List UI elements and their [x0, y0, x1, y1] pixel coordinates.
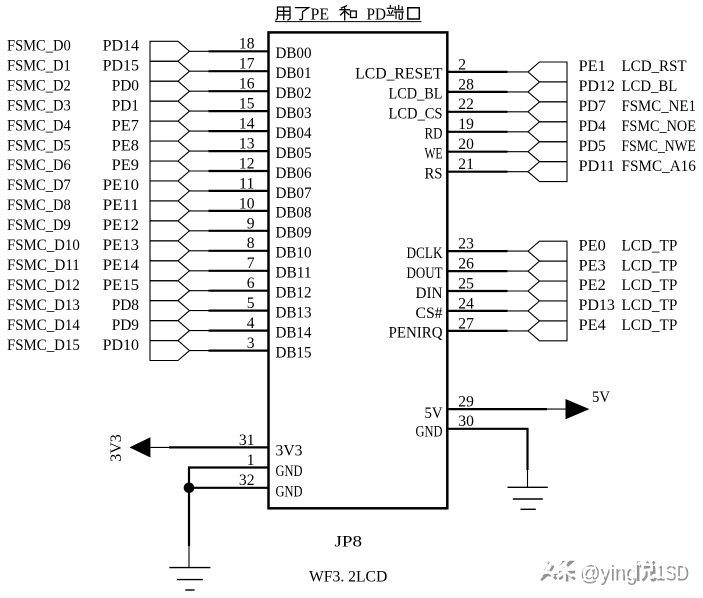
wire junction to ground	[188, 488, 190, 546]
svg-text:FSMC_D8: FSMC_D8	[7, 197, 71, 214]
pin 17 DB01: net FSMC_D1 / PD15	[7, 56, 312, 82]
pin 32 GND wire	[189, 472, 303, 500]
svg-text:FSMC_D14: FSMC_D14	[7, 317, 80, 334]
svg-text:DB04: DB04	[276, 125, 312, 142]
svg-text:PD1: PD1	[112, 97, 139, 114]
svg-text:PE13: PE13	[103, 237, 139, 254]
svg-text:PENIRQ: PENIRQ	[389, 325, 443, 342]
svg-text:31: 31	[239, 432, 255, 449]
svg-text:FSMC_D6: FSMC_D6	[7, 157, 71, 174]
svg-text:FSMC_D15: FSMC_D15	[7, 337, 80, 354]
svg-text:14: 14	[239, 116, 255, 133]
svg-text:LCD_TP: LCD_TP	[622, 317, 678, 334]
pin 23 DCLK: port PE0 / LCD_TP	[407, 236, 678, 262]
svg-text:FSMC_NE1: FSMC_NE1	[622, 98, 696, 115]
svg-text:1: 1	[247, 452, 255, 469]
svg-text:PE0: PE0	[579, 237, 606, 254]
title underline	[275, 21, 422, 23]
svg-text:DB02: DB02	[276, 85, 312, 102]
svg-text:DB10: DB10	[276, 245, 312, 262]
svg-text:GND: GND	[276, 463, 303, 480]
svg-text:22: 22	[458, 96, 474, 113]
pin 28 LCD_BL: port PD12 / LCD_BL	[389, 76, 678, 102]
svg-text:PD12: PD12	[579, 78, 615, 95]
pin 1 GND wire	[189, 452, 303, 488]
svg-text:8: 8	[247, 235, 255, 252]
svg-text:WE: WE	[425, 146, 443, 163]
pin 10 DB08: net FSMC_D8 / PE11	[7, 195, 312, 221]
pin 3 DB15: net FSMC_D15 / PD10	[7, 335, 312, 361]
svg-text:DB09: DB09	[276, 225, 312, 242]
pin 26 DOUT: port PE3 / LCD_TP	[407, 255, 678, 281]
pin 24 CS#: port PD13 / LCD_TP	[416, 295, 678, 321]
svg-text:PE8: PE8	[112, 137, 139, 154]
svg-text:27: 27	[458, 315, 474, 332]
pin 27 PENIRQ: port PE4 / LCD_TP	[389, 315, 678, 341]
svg-text:3V3: 3V3	[108, 434, 125, 462]
svg-text:5: 5	[247, 295, 255, 312]
pin 22 LCD_CS: port PD7 / FSMC_NE1	[389, 96, 696, 122]
title 口	[408, 8, 420, 19]
power symbol 5V arrow	[547, 389, 610, 419]
svg-text:WF3. 2LCD: WF3. 2LCD	[309, 569, 387, 586]
svg-text:28: 28	[458, 76, 474, 93]
svg-text:10: 10	[239, 195, 255, 212]
svg-text:7: 7	[247, 255, 255, 272]
svg-text:9: 9	[247, 215, 255, 232]
svg-text:3: 3	[247, 335, 255, 352]
svg-text:FSMC_D2: FSMC_D2	[7, 77, 71, 94]
svg-text:JP8: JP8	[335, 533, 363, 550]
svg-text:FSMC_D1: FSMC_D1	[7, 57, 71, 74]
svg-text:2: 2	[458, 56, 466, 73]
svg-text:PD15: PD15	[103, 57, 139, 74]
svg-text:PE: PE	[311, 4, 330, 23]
junction dot	[184, 483, 195, 494]
pin 18 DB00: net FSMC_D0 / PD14	[7, 36, 312, 62]
pin 9 DB09: net FSMC_D9 / PE12	[7, 215, 312, 241]
pin 8 DB10: net FSMC_D10 / PE13	[7, 235, 312, 261]
ground symbol (right)	[508, 470, 548, 509]
pin 11 DB07: net FSMC_D7 / PE10	[7, 175, 312, 201]
svg-text:3V3: 3V3	[276, 443, 303, 460]
svg-text:FSMC_D4: FSMC_D4	[7, 117, 71, 134]
svg-text:DB13: DB13	[276, 304, 312, 321]
svg-text:PD0: PD0	[112, 77, 139, 94]
pin 16 DB02: net FSMC_D2 / PD0	[7, 76, 312, 102]
svg-text:30: 30	[458, 413, 474, 430]
svg-text:FSMC_D0: FSMC_D0	[7, 38, 71, 55]
svg-text:19: 19	[458, 116, 474, 133]
svg-text:25: 25	[458, 275, 474, 292]
svg-text:FSMC_A16: FSMC_A16	[622, 158, 696, 175]
pin 2 LCD_RESET: port PE1 / LCD_RST	[355, 56, 687, 82]
svg-text:LCD_RST: LCD_RST	[622, 58, 687, 75]
svg-text:RS: RS	[425, 165, 443, 182]
ground symbol (left)	[169, 546, 210, 590]
svg-text:PE3: PE3	[579, 257, 606, 274]
svg-text:11: 11	[239, 175, 255, 192]
svg-text:6: 6	[247, 275, 255, 292]
svg-text:PD10: PD10	[103, 337, 139, 354]
svg-text:DCLK: DCLK	[407, 245, 443, 262]
svg-text:LCD_BL: LCD_BL	[622, 78, 678, 95]
svg-text:PE4: PE4	[579, 317, 606, 334]
svg-text:PE10: PE10	[103, 177, 139, 194]
svg-text:20: 20	[458, 136, 474, 153]
pin 15 DB03: net FSMC_D3 / PD1	[7, 96, 312, 122]
svg-text:21: 21	[458, 156, 474, 173]
svg-text:DB15: DB15	[276, 344, 312, 361]
svg-text:DOUT: DOUT	[407, 265, 443, 282]
svg-text:5V: 5V	[592, 389, 610, 406]
svg-text:PD14: PD14	[103, 38, 139, 55]
svg-text:PD7: PD7	[579, 98, 606, 115]
svg-text:FSMC_D10: FSMC_D10	[7, 237, 80, 254]
svg-text:PE7: PE7	[112, 117, 139, 134]
svg-text:CS#: CS#	[416, 305, 443, 322]
svg-text:23: 23	[458, 236, 474, 253]
svg-text:13: 13	[239, 135, 255, 152]
svg-text:LCD_TP: LCD_TP	[622, 257, 678, 274]
svg-text:PE15: PE15	[103, 277, 139, 294]
svg-text:DB05: DB05	[276, 145, 312, 162]
svg-text:PE1: PE1	[579, 58, 606, 75]
title 用了PE 和 PD端口	[276, 7, 309, 20]
svg-text:DB00: DB00	[276, 45, 312, 62]
svg-text:LCD_TP: LCD_TP	[622, 277, 678, 294]
pin 19 RD: port PD4 / FSMC_NOE	[425, 116, 696, 142]
svg-text:PD11: PD11	[579, 158, 615, 175]
power symbol 3V3 arrow (left)	[108, 434, 169, 462]
svg-text:DB14: DB14	[276, 324, 312, 341]
svg-text:RD: RD	[425, 126, 443, 143]
svg-text:PD13: PD13	[579, 297, 615, 314]
svg-text:PE11: PE11	[103, 197, 139, 214]
svg-text:LCD_TP: LCD_TP	[622, 297, 678, 314]
svg-text:FSMC_D12: FSMC_D12	[7, 277, 80, 294]
svg-text:LCD_CS: LCD_CS	[389, 106, 443, 123]
pin 14 DB04: net FSMC_D4 / PE7	[7, 116, 312, 142]
svg-text:GND: GND	[276, 483, 303, 500]
svg-text:DB11: DB11	[276, 265, 312, 282]
svg-text:FSMC_D3: FSMC_D3	[7, 97, 71, 114]
pin 4 DB14: net FSMC_D14 / PD9	[7, 315, 312, 341]
svg-text:PD4: PD4	[579, 118, 606, 135]
svg-text:PE2: PE2	[579, 277, 606, 294]
svg-text:1SD: 1SD	[654, 559, 687, 583]
svg-text:FSMC_D11: FSMC_D11	[7, 257, 80, 274]
svg-text:LCD_TP: LCD_TP	[622, 237, 678, 254]
svg-text:FSMC_D13: FSMC_D13	[7, 297, 80, 314]
svg-text:PE9: PE9	[112, 157, 139, 174]
svg-text:24: 24	[458, 295, 474, 312]
pin 12 DB06: net FSMC_D6 / PE9	[7, 155, 312, 181]
svg-text:26: 26	[458, 255, 474, 272]
svg-text:GND: GND	[416, 424, 443, 441]
svg-text:LCD_RESET: LCD_RESET	[355, 66, 443, 83]
svg-text:DB08: DB08	[276, 205, 312, 222]
pin 30 GND wire	[416, 413, 528, 470]
svg-text:DB01: DB01	[276, 65, 312, 82]
svg-text:DB03: DB03	[276, 105, 312, 122]
svg-text:FSMC_NWE: FSMC_NWE	[622, 138, 696, 155]
svg-text:PD8: PD8	[112, 297, 139, 314]
svg-text:DIN: DIN	[416, 285, 443, 302]
pin 7 DB11: net FSMC_D11 / PE14	[7, 255, 312, 281]
watermark 头条 @ying悦1SD	[538, 559, 690, 586]
svg-text:12: 12	[239, 155, 255, 172]
svg-text:5V: 5V	[425, 405, 443, 422]
pin 20 WE: port PD5 / FSMC_NWE	[425, 136, 696, 162]
svg-text:FSMC_D7: FSMC_D7	[7, 177, 71, 194]
svg-text:15: 15	[239, 96, 255, 113]
pin 31 3V3	[169, 432, 303, 460]
svg-text:DB06: DB06	[276, 165, 312, 182]
svg-text:DB12: DB12	[276, 285, 312, 302]
svg-text:16: 16	[239, 76, 255, 93]
svg-text:PD9: PD9	[112, 317, 139, 334]
pin 5 DB13: net FSMC_D13 / PD8	[7, 295, 312, 321]
svg-text:17: 17	[239, 56, 255, 73]
pin 6 DB12: net FSMC_D12 / PE15	[7, 275, 312, 301]
svg-text:PD5: PD5	[579, 138, 606, 155]
pin 13 DB05: net FSMC_D5 / PE8	[7, 135, 312, 161]
svg-text:4: 4	[247, 315, 255, 332]
svg-text:FSMC_D5: FSMC_D5	[7, 137, 71, 154]
svg-text:PE14: PE14	[103, 257, 139, 274]
svg-text:LCD_BL: LCD_BL	[389, 86, 443, 103]
svg-text:FSMC_D9: FSMC_D9	[7, 217, 71, 234]
svg-text:18: 18	[239, 36, 255, 53]
svg-text:29: 29	[458, 393, 474, 410]
svg-text:32: 32	[239, 472, 255, 489]
connector JP8 body	[269, 32, 448, 508]
svg-text:@ying: @ying	[578, 559, 636, 583]
pin 21 RS: port PD11 / FSMC_A16	[425, 156, 696, 182]
pin 25 DIN: port PE2 / LCD_TP	[416, 275, 678, 301]
svg-text:DB07: DB07	[276, 185, 312, 202]
svg-text:PE12: PE12	[103, 217, 139, 234]
pin 29 5V	[425, 393, 548, 422]
svg-text:FSMC_NOE: FSMC_NOE	[622, 118, 696, 135]
svg-text:PD: PD	[367, 4, 387, 23]
